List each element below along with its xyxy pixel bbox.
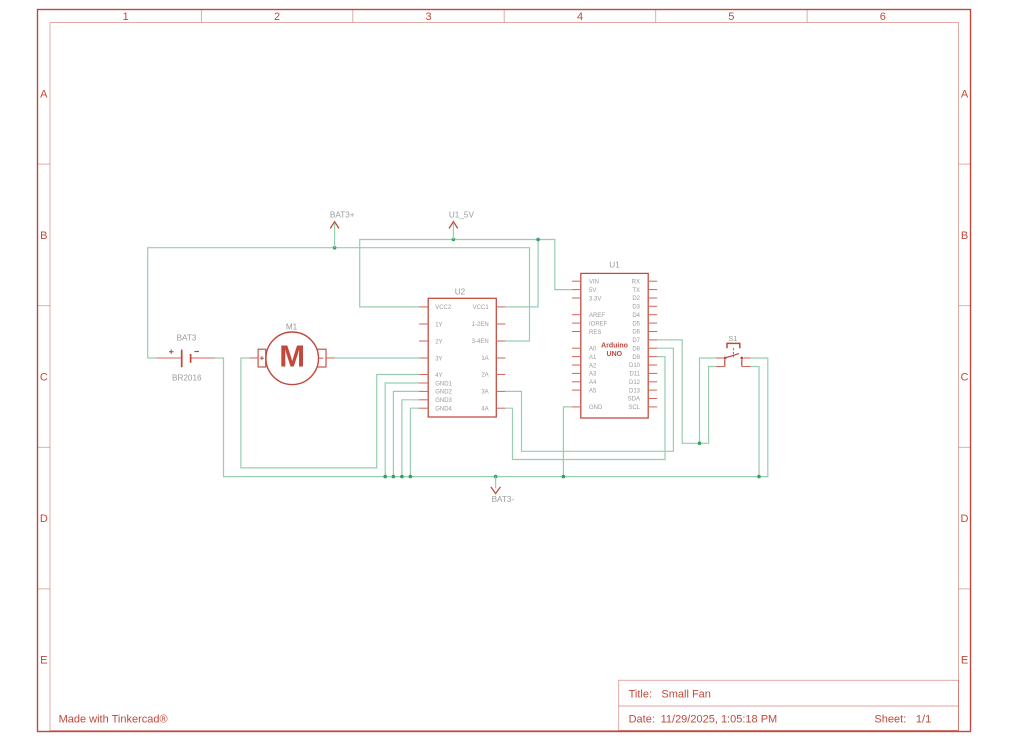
svg-text:U2: U2 xyxy=(455,288,466,297)
svg-text:BR2016: BR2016 xyxy=(172,374,202,383)
svg-text:D12: D12 xyxy=(629,380,641,386)
svg-text:VIN: VIN xyxy=(589,280,599,286)
svg-text:3: 3 xyxy=(425,11,431,23)
svg-text:AREF: AREF xyxy=(589,313,605,319)
svg-text:S1: S1 xyxy=(728,334,737,343)
svg-text:B: B xyxy=(40,230,47,242)
svg-text:Made with Tinkercad®: Made with Tinkercad® xyxy=(59,714,168,726)
svg-text:UNO: UNO xyxy=(607,351,623,358)
svg-text:D9: D9 xyxy=(632,355,640,361)
svg-text:Small Fan: Small Fan xyxy=(661,688,711,700)
svg-text:11/29/2025, 1:05:18 PM: 11/29/2025, 1:05:18 PM xyxy=(661,713,778,725)
svg-text:4A: 4A xyxy=(481,406,488,412)
junction BAT3+ arrow on top rail xyxy=(333,246,337,250)
svg-text:D13: D13 xyxy=(629,388,641,394)
svg-text:B: B xyxy=(961,230,968,242)
battery BAT3 (BR2016) xyxy=(156,349,215,367)
svg-text:2: 2 xyxy=(274,11,280,23)
svg-text:GND2: GND2 xyxy=(435,390,452,396)
power symbol U1_5V xyxy=(449,211,475,240)
junction GND rail / S1 pin 2b xyxy=(757,475,761,479)
microcontroller U1 Arduino UNO xyxy=(572,273,657,418)
wire net D9 : U2 4A to U1 D9 xyxy=(505,357,665,460)
wire M1 - terminal to U2 3Y xyxy=(335,357,420,359)
svg-text:4: 4 xyxy=(577,11,583,23)
svg-text:2Y: 2Y xyxy=(435,339,442,345)
svg-text:D6: D6 xyxy=(632,330,640,336)
wire net U1_5V : Arduino 5V rail to U2 VCC2 xyxy=(360,240,572,307)
svg-text:A1: A1 xyxy=(589,355,597,361)
svg-text:D: D xyxy=(961,513,969,525)
svg-text:A5: A5 xyxy=(589,388,597,394)
svg-text:U1: U1 xyxy=(609,261,620,270)
svg-text:D8: D8 xyxy=(632,346,640,352)
svg-text:3-4EN: 3-4EN xyxy=(472,339,489,345)
svg-text:RES: RES xyxy=(589,330,601,336)
junction GND rail / BAT3- arrow xyxy=(494,475,498,479)
motor M1 xyxy=(249,332,334,385)
svg-text:A4: A4 xyxy=(589,380,597,386)
svg-text:Sheet:: Sheet: xyxy=(874,713,906,725)
svg-text:U1_5V: U1_5V xyxy=(449,211,475,220)
svg-text:SCL: SCL xyxy=(628,405,640,411)
svg-text:D11: D11 xyxy=(629,372,640,378)
svg-text:C: C xyxy=(40,372,48,384)
svg-text:1: 1 xyxy=(123,11,129,23)
svg-text:3A: 3A xyxy=(481,390,488,396)
junction GND rail / GND4 xyxy=(409,475,413,479)
junction node D7 switch branch xyxy=(698,442,702,446)
svg-text:BAT3-: BAT3- xyxy=(492,495,515,504)
svg-text:BAT3+: BAT3+ xyxy=(330,211,355,220)
svg-text:E: E xyxy=(40,655,47,667)
svg-text:Arduino: Arduino xyxy=(601,343,628,350)
wire GND rail to U2 GND3 xyxy=(402,400,419,477)
wire net GND : battery - to bottom rail to S1 pin 2a xyxy=(215,358,768,477)
junction GND rail / U1 GND xyxy=(562,475,566,479)
wire GND rail to U2 GND4 xyxy=(410,408,419,476)
wire GND rail to U2 GND1 xyxy=(385,383,419,477)
svg-text:1A: 1A xyxy=(481,356,488,362)
wire M1 + terminal to U2 4Y xyxy=(241,358,419,468)
svg-text:E: E xyxy=(961,655,968,667)
svg-text:TX: TX xyxy=(632,288,640,294)
svg-text:M1: M1 xyxy=(286,323,298,332)
wire GND rail to U2 GND2 xyxy=(393,391,419,476)
svg-text:2A: 2A xyxy=(481,373,488,379)
svg-text:GND1: GND1 xyxy=(435,381,452,387)
svg-text:Title:: Title: xyxy=(629,688,652,700)
svg-text:4Y: 4Y xyxy=(435,373,442,379)
svg-text:3Y: 3Y xyxy=(435,356,442,362)
svg-text:D: D xyxy=(40,513,48,525)
svg-text:IOREF: IOREF xyxy=(589,321,608,327)
power symbol BAT3+ xyxy=(330,211,355,248)
svg-text:1/1: 1/1 xyxy=(916,713,931,725)
wire net U1_5V branch to U2 VCC1 xyxy=(505,240,538,307)
svg-text:5: 5 xyxy=(728,11,734,23)
svg-text:3.3V: 3.3V xyxy=(589,296,601,302)
svg-text:1-2EN: 1-2EN xyxy=(472,322,489,328)
svg-text:RX: RX xyxy=(632,279,640,285)
svg-text:D7: D7 xyxy=(632,338,640,344)
IC U2 (driver) xyxy=(419,298,505,417)
wire net D7 branch to S1 pin 1a xyxy=(700,358,717,443)
svg-text:M: M xyxy=(279,339,305,374)
wire net BAT3+ : battery + up along top rail down to U2 3-4EN xyxy=(148,248,530,358)
power symbol BAT3- xyxy=(491,477,515,505)
wire GND rail to U1 GND xyxy=(563,407,572,477)
junction GND rail / GND2 xyxy=(392,475,396,479)
wire net D7 : U1 D7 to S1 pin 1b xyxy=(657,340,716,443)
svg-text:Date:: Date: xyxy=(629,713,655,725)
svg-text:1Y: 1Y xyxy=(435,322,442,328)
wire net D8 : U2 3A to U1 D8 xyxy=(505,348,673,451)
svg-text:VCC2: VCC2 xyxy=(435,305,452,311)
svg-text:A: A xyxy=(961,88,969,100)
svg-text:GND: GND xyxy=(589,405,603,411)
svg-text:A2: A2 xyxy=(589,363,597,369)
svg-text:A0: A0 xyxy=(589,347,597,353)
svg-text:GND4: GND4 xyxy=(435,407,452,413)
switch S1 (pushbutton) xyxy=(716,343,751,366)
wire GND rail to S1 pin 2b xyxy=(751,367,759,477)
svg-text:6: 6 xyxy=(880,11,886,23)
svg-text:A3: A3 xyxy=(589,372,597,378)
svg-text:5V: 5V xyxy=(589,288,596,294)
svg-text:VCC1: VCC1 xyxy=(473,305,490,311)
svg-text:D4: D4 xyxy=(632,313,640,319)
svg-text:A: A xyxy=(40,88,48,100)
svg-text:D10: D10 xyxy=(629,363,641,369)
svg-text:GND3: GND3 xyxy=(435,398,452,404)
junction U1_5V arrow on 5V rail xyxy=(452,238,456,242)
junction GND rail / GND1 xyxy=(383,475,387,479)
svg-text:D2: D2 xyxy=(632,296,640,302)
svg-text:SDA: SDA xyxy=(628,397,640,403)
junction 5V rail branch to VCC1 xyxy=(536,238,540,242)
svg-text:C: C xyxy=(961,372,969,384)
svg-text:D5: D5 xyxy=(632,321,640,327)
svg-text:BAT3: BAT3 xyxy=(177,333,197,342)
junction GND rail / GND3 xyxy=(400,475,404,479)
svg-text:D3: D3 xyxy=(632,305,640,311)
